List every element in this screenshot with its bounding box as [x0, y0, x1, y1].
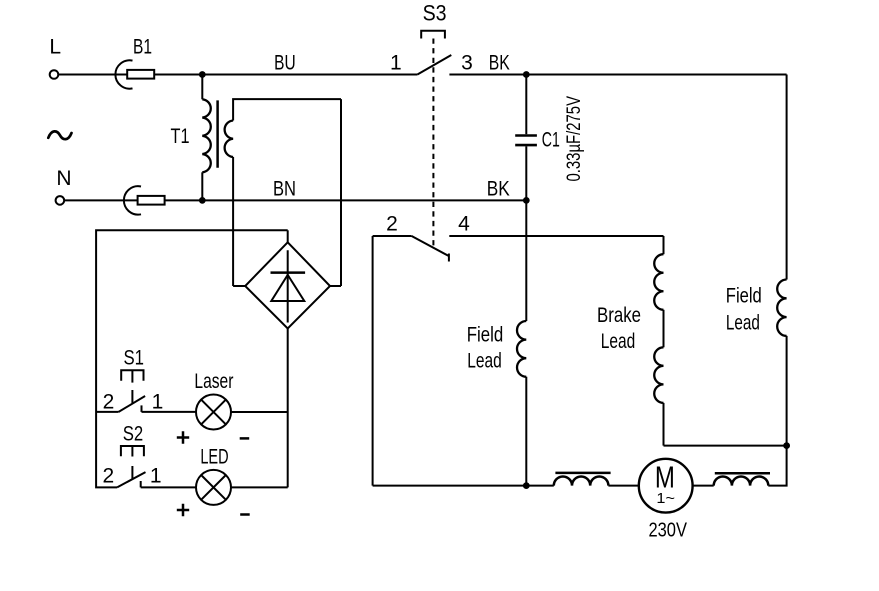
- svg-text:L: L: [49, 36, 61, 59]
- svg-text:4: 4: [458, 212, 470, 235]
- svg-text:LED: LED: [200, 445, 228, 468]
- S1 contact tick: [141, 405, 143, 412]
- terminal N: [56, 196, 65, 205]
- bottom wire: [373, 485, 554, 487]
- bridge stubs: [233, 285, 245, 287]
- T1 secondary: [233, 99, 341, 120]
- brake lead coil: [663, 236, 665, 254]
- lamp Laser: [196, 395, 231, 430]
- motor M1: [639, 459, 693, 513]
- svg-text:0.33µF/275V: 0.33µF/275V: [564, 96, 585, 182]
- right box left side: [372, 236, 374, 486]
- field lead left wire: [525, 200, 527, 321]
- bridge diode: [287, 250, 289, 322]
- wire: [608, 485, 638, 487]
- inductor left core: [555, 472, 610, 475]
- S1 button: [121, 370, 143, 381]
- svg-text:M: M: [655, 460, 675, 495]
- AC symbol ~: [48, 131, 71, 139]
- svg-text:N: N: [56, 167, 71, 190]
- junction: [199, 197, 206, 204]
- svg-text:B1: B1: [133, 36, 152, 59]
- wire: [64, 199, 137, 201]
- svg-text:Lead: Lead: [726, 312, 760, 335]
- junction: [523, 482, 530, 489]
- left box rail: [96, 230, 288, 487]
- svg-text:S1: S1: [123, 346, 144, 369]
- S2 button: [121, 446, 144, 456]
- field lead left coil: [517, 321, 526, 377]
- svg-text:Laser: Laser: [194, 370, 233, 393]
- minus sign: [240, 513, 250, 516]
- plus sign: [177, 431, 189, 443]
- wire: [693, 485, 714, 487]
- svg-text:BK: BK: [487, 178, 510, 201]
- svg-text:BN: BN: [273, 178, 296, 201]
- wire BU: [202, 74, 417, 76]
- svg-text:BU: BU: [274, 51, 296, 74]
- minus sign: [240, 437, 250, 440]
- junction: [783, 442, 790, 449]
- fuse holder N: [124, 186, 141, 214]
- svg-text:S3: S3: [423, 0, 447, 25]
- wire: [231, 411, 288, 413]
- inductor right core: [715, 472, 770, 475]
- junction: [199, 71, 206, 78]
- svg-text:C1: C1: [542, 129, 560, 152]
- S1 blade: [119, 396, 146, 412]
- field lead right wire: [786, 75, 788, 280]
- svg-text:Brake: Brake: [597, 304, 641, 327]
- svg-text:230V: 230V: [648, 520, 687, 542]
- svg-text:1: 1: [150, 464, 162, 487]
- svg-text:Field: Field: [467, 323, 504, 346]
- svg-text:3: 3: [461, 51, 473, 74]
- S3 pole2: [373, 235, 412, 237]
- S3 actuator bracket: [421, 31, 445, 39]
- wire contact4 to brake: [449, 235, 663, 237]
- terminal L: [50, 70, 59, 79]
- T1 primary: [201, 75, 203, 100]
- wire secondary top to bridge: [340, 99, 342, 286]
- svg-text:1: 1: [390, 51, 402, 74]
- svg-text:Field: Field: [726, 284, 762, 307]
- T1 core: [216, 100, 219, 167]
- wire: [58, 74, 127, 76]
- svg-text:Lead: Lead: [467, 349, 502, 372]
- S2 contact tick: [140, 481, 142, 487]
- wire BN: [165, 199, 527, 201]
- inductor left: [554, 477, 609, 486]
- wire BK: [449, 74, 786, 76]
- inductor right: [714, 477, 769, 486]
- field lead right coil: [777, 280, 786, 336]
- wire brake to right: [664, 445, 787, 447]
- svg-text:BK: BK: [489, 51, 510, 74]
- wire: [231, 486, 288, 488]
- svg-text:2: 2: [103, 390, 115, 413]
- svg-text:S2: S2: [123, 422, 144, 445]
- bridge rectifier: [245, 242, 330, 328]
- svg-text:T1: T1: [171, 125, 190, 148]
- S3 pole2 contact tick: [448, 254, 450, 262]
- S3 pole1 blade: [417, 55, 451, 75]
- lamp LED: [196, 470, 231, 505]
- wire: [96, 411, 119, 413]
- svg-text:1: 1: [152, 390, 164, 413]
- plus sign: [177, 504, 189, 516]
- S2 blade: [117, 472, 145, 487]
- wire bridge top to rail: [287, 230, 289, 242]
- junction: [523, 71, 530, 78]
- fuse B1: [115, 60, 132, 88]
- wire: [142, 411, 197, 413]
- svg-text:Lead: Lead: [601, 330, 636, 353]
- wire: [154, 74, 202, 76]
- S3 linkage dashed: [432, 39, 434, 248]
- svg-text:1~: 1~: [656, 491, 675, 507]
- wire: [141, 486, 196, 488]
- svg-text:2: 2: [102, 464, 114, 487]
- wire secondary bottom to bridge: [232, 157, 234, 286]
- svg-text:2: 2: [386, 212, 398, 235]
- junction: [523, 197, 530, 204]
- wire bridge bottom: [287, 328, 289, 487]
- S3 pole2 blade: [412, 236, 449, 256]
- capacitor C1: [525, 75, 527, 135]
